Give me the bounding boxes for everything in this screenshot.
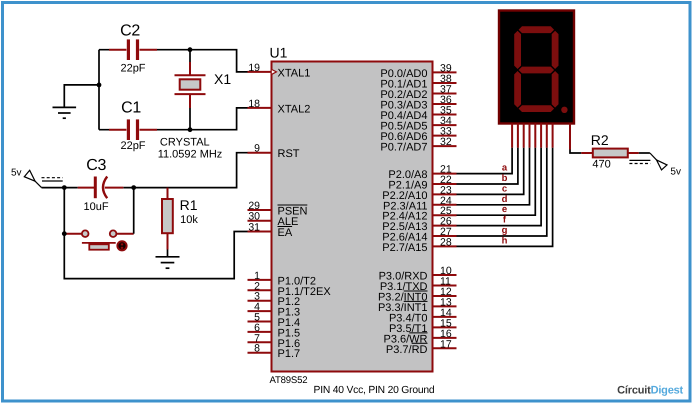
svg-text:470: 470 bbox=[592, 159, 610, 171]
svg-text:19: 19 bbox=[248, 62, 260, 74]
svg-text:18: 18 bbox=[248, 98, 260, 110]
svg-text:X1: X1 bbox=[214, 71, 231, 87]
svg-text:31: 31 bbox=[248, 222, 260, 234]
svg-text:PIN 40 Vcc, PIN 20 Ground: PIN 40 Vcc, PIN 20 Ground bbox=[314, 385, 435, 396]
svg-text:d: d bbox=[502, 194, 508, 205]
svg-text:EA: EA bbox=[278, 227, 293, 239]
svg-text:CRYSTAL: CRYSTAL bbox=[160, 137, 210, 149]
svg-text:XTAL1: XTAL1 bbox=[278, 67, 311, 79]
svg-text:10k: 10k bbox=[180, 214, 198, 226]
svg-text:22pF: 22pF bbox=[120, 140, 145, 152]
svg-text:CírcuitDigest: CírcuitDigest bbox=[617, 385, 683, 397]
svg-text:C3: C3 bbox=[86, 157, 106, 174]
svg-text:P1.7: P1.7 bbox=[278, 348, 301, 360]
svg-text:P2.7/A15: P2.7/A15 bbox=[382, 242, 427, 254]
svg-text:28: 28 bbox=[440, 236, 452, 248]
svg-text:g: g bbox=[502, 225, 508, 236]
svg-text:e: e bbox=[502, 204, 507, 215]
svg-text:RST: RST bbox=[278, 148, 300, 160]
svg-text:17: 17 bbox=[440, 338, 452, 350]
svg-text:5v: 5v bbox=[11, 167, 22, 178]
svg-text:10uF: 10uF bbox=[84, 201, 109, 213]
svg-text:C2: C2 bbox=[120, 23, 140, 40]
svg-text:AT89S52: AT89S52 bbox=[270, 375, 308, 386]
svg-text:c: c bbox=[502, 183, 507, 194]
svg-text:R2: R2 bbox=[591, 132, 609, 148]
svg-text:f: f bbox=[503, 215, 507, 226]
svg-text:C1: C1 bbox=[121, 100, 141, 117]
svg-text:8: 8 bbox=[254, 343, 260, 355]
svg-text:11.0592 MHz: 11.0592 MHz bbox=[158, 149, 223, 161]
svg-text:9: 9 bbox=[254, 143, 260, 155]
svg-text:22pF: 22pF bbox=[120, 63, 145, 75]
svg-text:P0.7/AD7: P0.7/AD7 bbox=[380, 142, 427, 154]
svg-text:b: b bbox=[502, 173, 508, 184]
svg-text:h: h bbox=[502, 235, 508, 246]
svg-text:P3.7/RD: P3.7/RD bbox=[386, 344, 428, 356]
svg-text:XTAL2: XTAL2 bbox=[278, 103, 311, 115]
svg-text:U1: U1 bbox=[270, 45, 288, 61]
svg-text:a: a bbox=[502, 163, 508, 174]
svg-text:32: 32 bbox=[440, 136, 452, 148]
svg-text:5v: 5v bbox=[670, 166, 681, 177]
svg-text:R1: R1 bbox=[180, 197, 198, 213]
